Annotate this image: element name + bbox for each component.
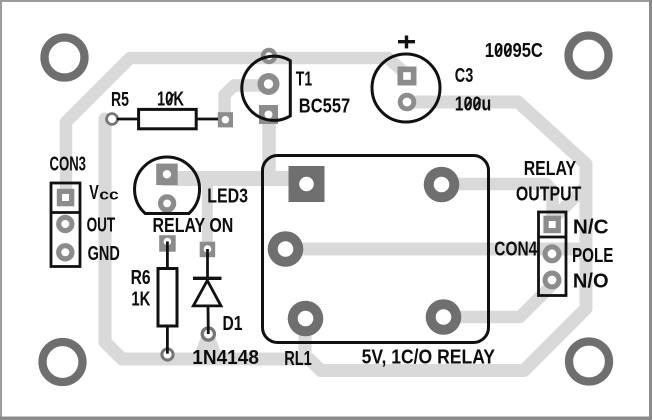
- svg-text:LED3: LED3: [207, 185, 248, 208]
- svg-text:N/O: N/O: [573, 270, 609, 293]
- svg-text:C3: C3: [455, 64, 474, 87]
- svg-text:10095C: 10095C: [485, 39, 543, 62]
- svg-text:N/C: N/C: [573, 215, 609, 238]
- svg-text:GND: GND: [88, 242, 120, 265]
- svg-text:1K: 1K: [131, 287, 150, 310]
- svg-text:RELAY ON: RELAY ON: [153, 214, 234, 237]
- svg-text:V: V: [89, 181, 99, 204]
- svg-text:CON4: CON4: [494, 238, 537, 261]
- svg-text:RL1: RL1: [284, 347, 312, 370]
- svg-text:RELAY: RELAY: [524, 157, 577, 180]
- svg-text:100u: 100u: [455, 93, 491, 116]
- svg-text:T1: T1: [296, 68, 312, 91]
- svg-text:R5: R5: [111, 88, 129, 111]
- svg-text:R6: R6: [131, 266, 151, 289]
- svg-text:1N4148: 1N4148: [192, 346, 259, 369]
- svg-text:D1: D1: [223, 312, 243, 335]
- svg-text:BC557: BC557: [299, 94, 350, 117]
- svg-text:OUT: OUT: [87, 213, 116, 236]
- svg-text:POLE: POLE: [572, 244, 613, 267]
- svg-text:5V, 1C/O RELAY: 5V, 1C/O RELAY: [362, 346, 496, 369]
- svg-text:cc: cc: [99, 186, 119, 203]
- svg-text:CON3: CON3: [50, 153, 87, 176]
- svg-text:OUTPUT: OUTPUT: [516, 182, 582, 205]
